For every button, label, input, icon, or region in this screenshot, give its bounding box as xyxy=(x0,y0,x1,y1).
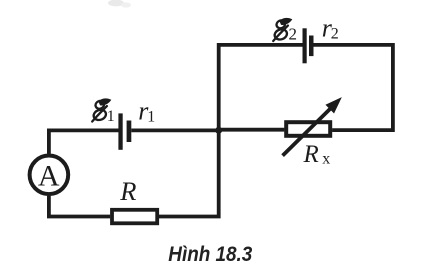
rheostat Rx arrow xyxy=(283,98,341,155)
svg-text:Hình 18.3: Hình 18.3 xyxy=(168,243,252,266)
battery E2 long plate xyxy=(303,28,307,63)
svg-text:A: A xyxy=(38,160,60,193)
battery E2 short plate xyxy=(309,36,314,57)
wire: junction up to E2 branch top-left corner xyxy=(219,45,303,132)
svg-text:R: R xyxy=(119,176,136,206)
wire: left corner to battery E1 xyxy=(49,130,119,154)
wire: battery E2 to top-right corner down to Rx xyxy=(313,45,393,130)
label E2 (emf 2) xyxy=(273,18,291,41)
battery E1 long plate xyxy=(118,113,122,149)
svg-text:1: 1 xyxy=(147,109,155,126)
svg-text:2: 2 xyxy=(331,26,339,43)
svg-text:x: x xyxy=(322,150,330,167)
wire: junction to Rx xyxy=(219,128,285,132)
svg-text:2: 2 xyxy=(289,24,298,43)
svg-text:1: 1 xyxy=(107,108,115,125)
scan smudge top xyxy=(108,0,131,8)
ammeter A1 circle xyxy=(30,156,69,195)
junction node xyxy=(215,127,222,134)
label E1 (emf 1) xyxy=(92,99,110,122)
wire: ammeter to bottom-left corner to resistor R xyxy=(49,196,110,217)
wire: battery E1 to junction xyxy=(131,128,220,132)
battery E1 short plate xyxy=(127,121,132,143)
resistor R box xyxy=(112,210,157,224)
wire: resistor R to bottom-right corner up to junction xyxy=(159,128,219,216)
svg-text:R: R xyxy=(303,141,319,168)
rheostat Rx box xyxy=(286,122,330,136)
